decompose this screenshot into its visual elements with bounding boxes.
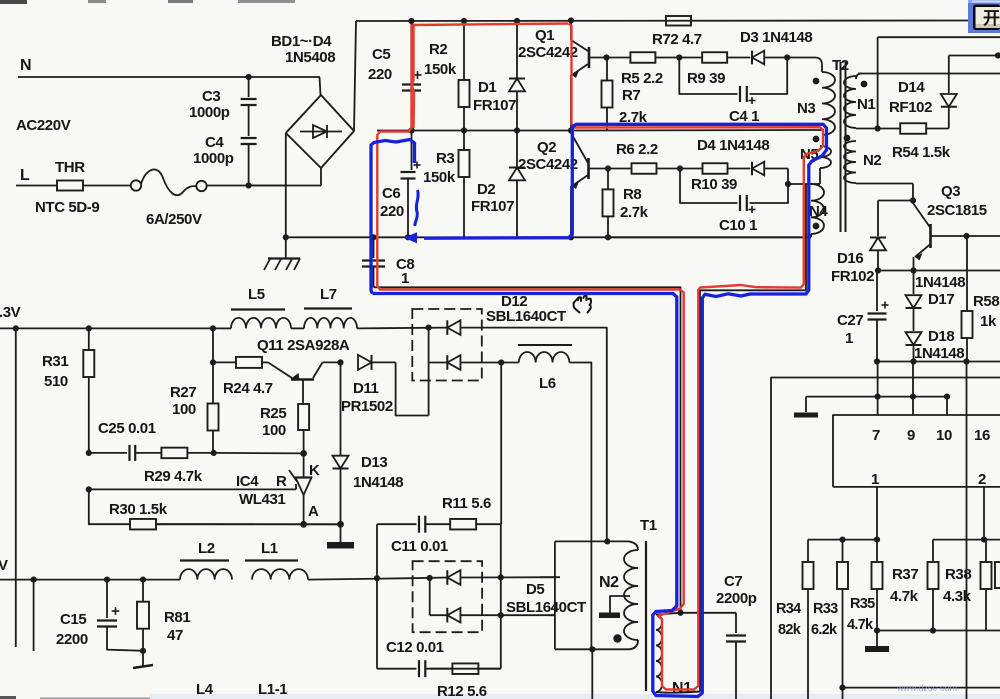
shunt reg IC4 WL431 (289, 453, 312, 524)
junction D13 bottom (337, 521, 344, 528)
junction N1N2 tap (875, 125, 881, 131)
capacitor C4(1) in box (740, 86, 747, 102)
ground below R35 (865, 631, 889, 653)
svg-text:R2: R2 (429, 41, 447, 58)
wire L1 to snubber (308, 578, 413, 579)
capacitor C3 (241, 77, 257, 136)
svg-text:1k: 1k (980, 313, 997, 330)
diode D5b (447, 608, 460, 623)
svg-text:AC220V: AC220V (16, 117, 71, 134)
svg-text:R72 4.7: R72 4.7 (652, 31, 702, 48)
blue highlight current loop C6 (371, 140, 415, 294)
inductor L1 (252, 569, 308, 580)
wire divider rail left (808, 539, 877, 541)
svg-text:BD1~·D4: BD1~·D4 (271, 33, 332, 50)
svg-text:1000p: 1000p (193, 150, 234, 167)
junction pin10 top (944, 394, 950, 400)
svg-text:510: 510 (44, 373, 68, 390)
svg-text:5V: 5V (0, 557, 8, 574)
junction Q1 base node (603, 54, 609, 60)
wire top right horizontal (878, 36, 1000, 38)
wire D12b to L6 (461, 362, 519, 364)
diode D14 (941, 56, 957, 129)
wire left long vertical 1 (15, 328, 17, 647)
svg-text:150k: 150k (423, 169, 456, 186)
junction mid rail Q1Q2 (568, 127, 574, 133)
wire N line (18, 76, 320, 78)
L5 overline (231, 308, 285, 310)
junction D5b out (498, 612, 504, 618)
wire D11 route down (396, 362, 429, 415)
wire L6 to T1 N2 bottom (569, 363, 591, 650)
resistor R9 (679, 52, 750, 63)
resistor R2 (459, 21, 470, 131)
junction Q3 base right (963, 233, 969, 239)
T1 center tap (610, 596, 630, 613)
wire L left segment (16, 185, 57, 187)
svg-text:D16: D16 (837, 250, 863, 267)
svg-text:L7: L7 (320, 286, 337, 303)
wire D5 stub upper (540, 576, 555, 578)
junction mid rail D1D2 (514, 127, 520, 133)
svg-text:3.3V: 3.3V (0, 304, 21, 321)
svg-text:2: 2 (978, 471, 986, 488)
svg-text:100: 100 (172, 401, 196, 418)
svg-text:R5 2.2: R5 2.2 (621, 70, 663, 87)
phase dot N1 T2 (861, 81, 868, 88)
wire Q2 collector rail (571, 129, 822, 132)
wire N1 bottom up to T2 drive (700, 290, 806, 691)
plus mark C27 (882, 302, 889, 309)
svg-text:C7: C7 (724, 573, 742, 590)
wire fuse to C3C4 junction (207, 185, 286, 187)
svg-text:R33: R33 (813, 601, 838, 617)
wire N4 bottom to gnd rail (810, 234, 812, 237)
resistor R12 (430, 663, 501, 674)
diode D17 (906, 271, 922, 309)
phase dot N5 (813, 136, 820, 143)
blue squiggle annotation near C6 (415, 190, 418, 226)
svg-text:82k: 82k (778, 622, 802, 638)
svg-text:C4 1: C4 1 (729, 108, 759, 125)
resistor R5 (607, 52, 680, 63)
junction R8 bottom (605, 234, 611, 240)
plus mark C6 (414, 162, 421, 169)
junction L-C4 (246, 182, 252, 188)
svg-text:RF102: RF102 (889, 99, 932, 116)
wire bridge top to N line (320, 77, 321, 95)
T2 core lines (840, 62, 842, 232)
junction right edge (995, 52, 1000, 58)
capacitor C6 electrolytic (401, 131, 416, 238)
plus mark C5 (414, 71, 422, 79)
resistor R30 (104, 519, 338, 530)
junction R37 bottom (930, 627, 936, 633)
svg-text:D2: D2 (477, 181, 495, 198)
svg-text:www.dzsc-com: www.dzsc-com (896, 683, 957, 693)
resistor R3 (459, 131, 470, 238)
resistor R81 (137, 580, 149, 651)
svg-text:2SC4242: 2SC4242 (518, 156, 578, 173)
svg-text:R27: R27 (170, 384, 196, 401)
resistor R8 (603, 169, 614, 238)
junction top rail D1 (514, 18, 520, 24)
wire left long vertical 2 (33, 580, 35, 651)
capacitor C4 (241, 138, 257, 186)
svg-text:L2: L2 (198, 540, 215, 557)
winding N5 of T2 (820, 146, 831, 168)
svg-text:C3: C3 (202, 88, 220, 105)
svg-text:N2: N2 (863, 152, 881, 169)
bridge rectifier BD1-D4 (286, 95, 354, 168)
capacitor C7 (681, 613, 747, 699)
capacitor C11 (419, 516, 425, 533)
diode D18 (906, 308, 922, 362)
L7 overline (304, 307, 352, 309)
wire bottom mid rail (877, 630, 1000, 632)
inductor L5 (222, 327, 231, 329)
wire Q3 node to D16 (878, 200, 913, 202)
svg-text:220: 220 (380, 203, 404, 220)
junction T1 N2 top (604, 538, 610, 544)
diode D12b (447, 355, 460, 370)
junction pin9 top (910, 394, 916, 400)
svg-text:D11: D11 (353, 380, 379, 397)
ground hook for pin rail (794, 397, 818, 418)
svg-text:C11 0.01: C11 0.01 (391, 538, 448, 555)
wire feedback row1 (89, 452, 127, 454)
svg-text:1: 1 (401, 270, 409, 287)
junction L6 node (498, 359, 504, 365)
svg-text:N4: N4 (809, 203, 828, 220)
resistor R37 (928, 540, 939, 631)
winding N1 of T2 (856, 74, 862, 80)
wire snubber bottom row (377, 668, 417, 670)
wire N1 top link (656, 613, 681, 615)
resistor R29 (135, 448, 213, 459)
resistor R25 (298, 404, 309, 453)
diode D2 (509, 131, 525, 238)
wire snubber right column lower (500, 524, 502, 669)
svg-text:6.2k: 6.2k (811, 622, 838, 638)
junction C27 bottom (874, 358, 880, 364)
svg-text:R6 2.2: R6 2.2 (616, 141, 658, 158)
junction pin7 top (875, 394, 881, 400)
T1 core line (645, 541, 647, 691)
svg-text:1000p: 1000p (189, 104, 230, 121)
junction row2 left (86, 486, 92, 492)
wire N3 feed (787, 58, 822, 73)
svg-text:R11 5.6: R11 5.6 (442, 495, 491, 512)
L6 overline (518, 344, 572, 346)
svg-text:D14: D14 (898, 79, 925, 96)
svg-text:R58: R58 (973, 293, 999, 310)
svg-text:NTC 5D-9: NTC 5D-9 (35, 199, 99, 216)
junction D16 bottom (875, 267, 881, 273)
diode D5a (447, 570, 460, 585)
junction D3-N3 (784, 54, 790, 60)
wire pins supply rail (806, 396, 947, 398)
svg-text:C4: C4 (205, 134, 224, 151)
wire top rail (356, 20, 968, 23)
wire pin1 stub (876, 487, 878, 540)
svg-text:D18: D18 (928, 328, 954, 345)
junction R34 top (839, 537, 845, 543)
blue arrowhead at C6 bottom (404, 232, 417, 243)
resistor R27 (208, 362, 219, 453)
wire D13 hang (340, 362, 342, 455)
junction pin2 rail (981, 537, 987, 543)
junction R27 bottom (211, 450, 217, 456)
svg-text:PR1502: PR1502 (341, 398, 393, 415)
bottom status strip (0, 694, 1000, 699)
svg-text:R81: R81 (164, 609, 190, 626)
wire D5 inner vertical (429, 578, 431, 615)
svg-text:1: 1 (845, 330, 853, 347)
capacitor C12 (419, 660, 425, 677)
svg-text:C12 0.01: C12 0.01 (386, 639, 444, 656)
svg-text:IC4: IC4 (236, 473, 259, 490)
resistor R31 (83, 328, 94, 453)
wire R33 tail (842, 688, 844, 699)
junction rail R27col (210, 325, 216, 331)
svg-text:47: 47 (167, 627, 183, 644)
ground below R81 (133, 651, 153, 668)
wire tap vertical (877, 37, 879, 128)
wire D3 to N3 node (765, 57, 788, 59)
svg-text:C5: C5 (372, 46, 390, 63)
svg-text:C10 1: C10 1 (719, 217, 757, 234)
wire snubber top row (377, 523, 417, 525)
svg-text:L4: L4 (196, 681, 214, 698)
junction R81 top (140, 577, 146, 583)
inductor L6 (519, 352, 570, 362)
wire lower right rail (877, 361, 1000, 363)
wire D5a out (461, 576, 561, 578)
svg-text:Q2: Q2 (537, 139, 556, 156)
svg-text:2SC4242: 2SC4242 (518, 44, 578, 61)
junction R81 bottom (140, 648, 146, 654)
junction R33 bottom (839, 685, 845, 691)
resistor R10 (680, 163, 750, 174)
svg-text:L5: L5 (248, 286, 265, 303)
svg-text:SBL1640CT: SBL1640CT (486, 308, 566, 325)
svg-text:L: L (20, 167, 30, 184)
L2 overline (180, 559, 229, 561)
diode D16 (870, 238, 886, 271)
winding N1 of T1 (656, 615, 662, 693)
wire D14 top (949, 55, 1000, 57)
wire bridge left vertex down to gnd rail (285, 133, 287, 237)
plus mark C4 (749, 97, 756, 104)
winding N2 of T1 (629, 541, 638, 550)
wire N1 bottom link (656, 692, 700, 693)
wire halfbridge to T1 N1 (374, 287, 681, 613)
svg-text:FR107: FR107 (471, 198, 514, 215)
junction D18 bottom (910, 358, 916, 364)
svg-text:C25 0.01: C25 0.01 (98, 420, 156, 437)
wire R58 long vertical (966, 362, 968, 699)
junction C6 bottom (405, 234, 411, 240)
transistor Q1 (571, 21, 607, 131)
svg-text:N2: N2 (599, 574, 619, 591)
svg-text:R12 5.6: R12 5.6 (437, 683, 487, 699)
diode D1 (509, 21, 525, 131)
resistor R58 (962, 236, 973, 362)
window panel fragment (968, 0, 1000, 33)
wire N5 to N4 node (819, 168, 821, 184)
wire Q1 row mid (377, 130, 571, 132)
svg-text:2200p: 2200p (716, 590, 757, 607)
svg-text:R10 39: R10 39 (691, 176, 737, 193)
svg-text:1N4148: 1N4148 (915, 274, 965, 291)
IC U1 box (833, 415, 1000, 487)
transistor Q3 (913, 203, 1000, 271)
svg-text:150k: 150k (424, 61, 457, 78)
phase dot N3 (813, 78, 820, 85)
svg-text:R: R (276, 473, 287, 490)
wire pin10 stub (946, 397, 948, 415)
svg-text:1N4148: 1N4148 (914, 345, 964, 362)
wire D5 row1 (413, 577, 448, 580)
junction R58 bottom (963, 358, 969, 364)
wire bridge right vertex up to top rail (354, 21, 356, 131)
svg-text:WL431: WL431 (239, 491, 285, 508)
wire T1 N2 bottom row (555, 648, 629, 650)
svg-text:T1: T1 (640, 517, 657, 534)
svg-text:4.7k: 4.7k (890, 588, 919, 605)
svg-text:FR107: FR107 (473, 97, 516, 114)
junction top rail C5 (408, 18, 414, 24)
junction N-C3 (246, 74, 252, 80)
winding N2 of T2 (844, 141, 856, 183)
capacitor C27 (868, 271, 887, 362)
junction row1 left (86, 450, 92, 456)
wire D12 inner vertical (428, 328, 430, 416)
svg-text:开: 开 (983, 9, 1000, 28)
junction R35 top (874, 537, 880, 543)
svg-text:7: 7 (872, 427, 880, 444)
thermistor THR NTC 5D-9 (57, 181, 131, 191)
wire D5b out (461, 614, 556, 616)
svg-text:THR: THR (55, 159, 85, 176)
wire snubber left column (376, 524, 378, 669)
resistor R34 (803, 540, 814, 699)
top edge clipped text marks (0, 0, 295, 4)
winding N3 of T2 (822, 72, 835, 135)
phase dot N2 T1 (613, 634, 621, 642)
ground below D13 (327, 524, 354, 548)
diode D13 (333, 456, 349, 525)
wire D12 lower row (429, 362, 448, 364)
svg-text:R25: R25 (260, 405, 286, 422)
dashed box D12 (412, 309, 482, 381)
wire output rail upper (0, 327, 222, 329)
svg-text:R31: R31 (42, 353, 68, 370)
wire feedback row3 (89, 489, 104, 524)
capacitor C15 electrolytic (97, 580, 143, 651)
inductor L2 (180, 569, 232, 580)
svg-text:C6: C6 (382, 185, 400, 202)
wire divider rail right (933, 539, 1000, 541)
svg-text:16: 16 (974, 427, 990, 444)
svg-text:D3 1N4148: D3 1N4148 (740, 29, 812, 46)
svg-text:Q3: Q3 (941, 183, 960, 200)
svg-text:N: N (20, 57, 31, 74)
wire N4 feed (788, 183, 806, 185)
diode D12a (447, 320, 460, 335)
wire enclosure L line (771, 378, 1000, 699)
svg-text:R34: R34 (776, 601, 801, 617)
snubber box C4 path (679, 58, 737, 95)
wire R29 to K node (214, 452, 304, 455)
svg-text:R24 4.7: R24 4.7 (223, 380, 273, 397)
junction T1 N2 bottom (589, 646, 595, 652)
wire pin7 stub (877, 362, 879, 416)
hand cursor (574, 296, 592, 313)
junction rail lower x33 (30, 577, 36, 583)
winding N4 of T2 (811, 184, 824, 234)
junction gnd rail left (283, 234, 289, 240)
diode D11 (358, 355, 396, 370)
svg-text:1N5408: 1N5408 (285, 49, 335, 66)
svg-text:L1: L1 (261, 540, 278, 557)
snubber box C10 path (680, 169, 738, 204)
L1 overline (245, 559, 298, 561)
earth ground below bridge (264, 237, 300, 270)
svg-text:SBL1640CT: SBL1640CT (506, 599, 586, 616)
diode D4 (752, 162, 764, 176)
svg-text:R38: R38 (945, 566, 971, 583)
junction snubber right on rail (498, 574, 504, 580)
transistor Q11 (268, 362, 341, 404)
wire bridge bottom vertex down (320, 168, 322, 186)
capacitor C8 (362, 237, 385, 287)
phase dot N2 T2 (844, 135, 851, 142)
svg-text:1: 1 (871, 471, 879, 488)
wire feedback row2 R gate (89, 488, 296, 490)
svg-text:C27: C27 (837, 312, 863, 329)
transistor Q2 (571, 133, 608, 237)
svg-text:D5: D5 (526, 581, 544, 598)
svg-text:R35: R35 (850, 596, 875, 612)
svg-text:6A/250V: 6A/250V (146, 211, 202, 228)
junction rail x16 (13, 325, 19, 331)
svg-text:Q11 2SA928A: Q11 2SA928A (257, 337, 350, 354)
junction D12 upper (426, 325, 432, 331)
svg-text:R7: R7 (622, 87, 640, 104)
svg-text:1N4148: 1N4148 (353, 474, 403, 491)
junction C15 top (104, 577, 110, 583)
svg-text:R54 1.5k: R54 1.5k (892, 144, 951, 161)
red highlight current loop C5 (412, 24, 569, 26)
wire D4 to N5 node (765, 168, 789, 170)
svg-text:100: 100 (262, 422, 286, 439)
svg-text:N1: N1 (857, 96, 875, 113)
partial resistor right edge (995, 562, 1000, 588)
wire D12a to corner (461, 328, 607, 541)
svg-text:220: 220 (368, 66, 392, 83)
svg-text:9: 9 (907, 427, 915, 444)
wire output rail lower (0, 579, 180, 581)
junction K node (300, 450, 307, 457)
svg-text:A: A (308, 503, 319, 520)
svg-text:2200: 2200 (56, 631, 88, 648)
junction rail R31 (86, 325, 92, 331)
wire bridge bottom to C4 node (249, 185, 321, 187)
svg-text:FR102: FR102 (831, 268, 874, 285)
junction top rail Q1 (568, 17, 574, 23)
